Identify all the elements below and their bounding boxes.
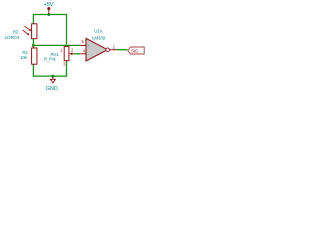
potentiometer RV1 body	[64, 46, 69, 60]
op-amp U1A input pin stubs	[80, 44, 86, 46]
wire R1 bottom to ground rail	[33, 61, 66, 76]
global label SIG	[128, 47, 144, 54]
svg-text:10k: 10k	[20, 55, 28, 60]
ground symbol	[50, 76, 55, 83]
svg-text:+5V: +5V	[44, 2, 54, 8]
wire middle node to op-amp plus input	[33, 44, 80, 46]
RV1 wiper arrow	[69, 52, 74, 55]
svg-text:+: +	[87, 43, 90, 48]
LDR arrow 1	[25, 26, 32, 31]
op-amp U1A triangle	[86, 38, 108, 61]
svg-text:GND: GND	[46, 86, 58, 91]
wire op-amp output to SIG label	[117, 49, 128, 51]
open-collector output circle	[106, 48, 110, 52]
resistor R1 top pin	[32, 46, 34, 48]
resistor R2 (LDR) body	[32, 24, 37, 39]
LDR arrow 2	[23, 30, 30, 35]
junction +5V tap	[47, 13, 50, 16]
output pin stub	[110, 49, 118, 51]
wire pot wiper to op-amp minus input	[75, 53, 81, 55]
svg-text:LDR03: LDR03	[4, 35, 19, 40]
power +5V symbol	[48, 8, 50, 15]
svg-text:U1A: U1A	[94, 29, 102, 34]
wire LDR bottom to junction	[32, 39, 34, 46]
junction GND tap	[51, 75, 54, 78]
svg-text:SIG: SIG	[131, 48, 139, 53]
junction node A (LDR / R1 / op-amp)	[32, 44, 35, 47]
wire top rail from LDR top corner to pot column	[33, 15, 66, 47]
resistor R1 body	[32, 48, 37, 64]
svg-text:LM339: LM339	[92, 35, 105, 40]
svg-text:R_Pot: R_Pot	[44, 56, 56, 61]
